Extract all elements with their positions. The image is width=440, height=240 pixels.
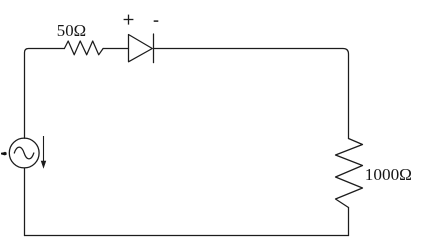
wire: bottom return <box>25 235 349 237</box>
wire: resistor R2 bottom to bottom-right corner <box>348 208 350 236</box>
svg-text:1000Ω: 1000Ω <box>365 165 412 184</box>
AC source V1 sine wave <box>14 147 34 159</box>
small mark left of source <box>1 152 7 156</box>
label + (diode anode polarity) <box>124 15 134 25</box>
svg-text:50Ω: 50Ω <box>57 21 86 40</box>
AC source V1 circle <box>9 138 39 168</box>
wire: left vertical below source <box>24 168 26 236</box>
wire: resistor R1 to diode D1 anode <box>103 48 128 50</box>
label - (diode cathode polarity) <box>154 20 159 22</box>
wire: top-left corner segment to resistor R1 <box>25 49 65 139</box>
resistor R1 50Ω zigzag <box>64 41 103 55</box>
diode D1 cathode bar <box>153 34 155 63</box>
current direction arrow <box>41 136 46 168</box>
wire: diode D1 cathode to top-right corner <box>154 49 349 139</box>
resistor R2 1000Ω zigzag <box>336 139 363 208</box>
diode D1 triangle <box>129 35 153 62</box>
